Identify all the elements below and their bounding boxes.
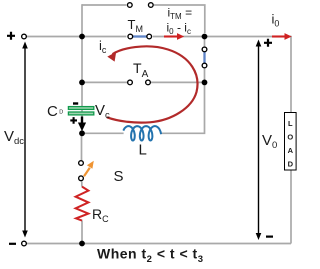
thyristor TA open contact left: [128, 80, 133, 85]
capacitor CD plate bottom: [68, 112, 93, 115]
switch S contact top: [79, 161, 84, 166]
wire left rail mid (cap to switch): [81, 131, 83, 160]
label + (V0 top): [264, 39, 272, 47]
node junction main-left: [79, 34, 85, 40]
label - (Vdc bottom): [9, 243, 16, 245]
label + (Vdc top): [7, 32, 15, 40]
wire left rail upper: [81, 4, 83, 117]
auxiliary device contact top: [202, 47, 207, 52]
label - (V0 bottom): [266, 236, 273, 238]
switch S orange arrow: [84, 161, 94, 177]
V0 measuring arrow: [256, 40, 262, 241]
Vdc measuring arrow: [22, 42, 28, 238]
capacitor CD plus sign: [70, 117, 77, 124]
node junction TA-right: [202, 80, 208, 86]
auxiliary device blue bar (conducting): [203, 52, 205, 64]
wire mid-right rail lower: [161, 69, 205, 134]
wire mid-right rail upper: [204, 37, 206, 47]
wire left rail switch to resistor: [81, 182, 83, 187]
auxiliary device contact bottom: [202, 63, 207, 68]
wire main line right: [153, 36, 291, 38]
wire top rail left segment: [82, 4, 126, 6]
svg-text:D: D: [288, 160, 294, 169]
wire bottom line: [27, 243, 292, 245]
diode DF open contact left: [127, 3, 132, 8]
capacitor discharge black arrow: [78, 117, 86, 132]
svg-text:S: S: [114, 168, 124, 185]
wire main line left: [27, 36, 127, 38]
thyristor TM blue bar (conducting): [132, 35, 147, 37]
svg-text:O: O: [287, 133, 293, 142]
switch S contact bottom: [79, 176, 84, 181]
thyristor TM contact right: [147, 34, 152, 39]
wire TA branch right: [151, 81, 204, 83]
capacitor CD plate top: [68, 107, 93, 110]
red commutation loop ic: [107, 46, 197, 122]
wire top rail right segment: [154, 5, 205, 33]
node junction main-right: [202, 34, 208, 40]
svg-text:A: A: [288, 146, 294, 155]
thyristor TA open contact right: [146, 80, 151, 85]
wire left rail below resistor: [81, 220, 83, 243]
load box: [285, 113, 297, 171]
svg-text:L: L: [288, 119, 293, 128]
node junction TA-left: [79, 80, 85, 86]
thyristor TM contact left: [128, 34, 133, 39]
inductor L coil: [123, 126, 161, 140]
terminal circle minus: [22, 241, 27, 246]
wire TA branch left: [82, 81, 127, 83]
svg-text:L: L: [139, 142, 147, 159]
capacitor CD minus sign: [73, 102, 78, 104]
red arrow i0 on main line: [272, 33, 292, 40]
terminal circle plus: [22, 34, 27, 39]
node junction inductor-left: [79, 130, 85, 136]
resistor RC zigzag: [76, 187, 89, 221]
wire load branch: [290, 36, 292, 244]
diode DF open contact right: [148, 3, 153, 8]
red arrow iTM on main line: [164, 33, 184, 40]
wire inductor line left: [82, 132, 124, 134]
node junction bottom: [79, 241, 85, 247]
